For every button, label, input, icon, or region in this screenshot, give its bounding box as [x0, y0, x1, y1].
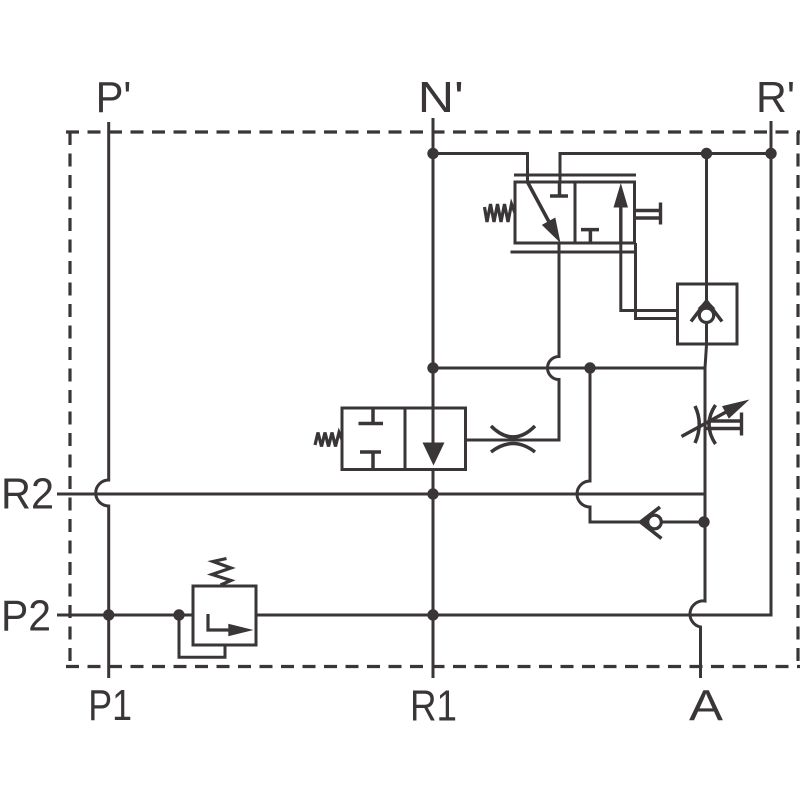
wire P' to P1 vertical with hop over R2 [96, 122, 109, 678]
junction dot N' pilot rail [427, 362, 438, 373]
adjustable throttle adjuster screw [706, 413, 742, 436]
enclosure dashed border [66, 132, 800, 667]
wire check valve CV2 to A-line [662, 521, 705, 524]
wire A-line: check box bottom through throttle, hop over P2, to port A [690, 323, 707, 679]
adjustable throttle arrow [682, 412, 728, 437]
valve V1 proportional line bottom [511, 251, 637, 254]
valve V2 body box [342, 408, 466, 470]
svg-text:N': N' [418, 73, 464, 122]
junction dot CV2 to A-line [698, 516, 709, 527]
valve V1 spring [485, 204, 516, 222]
svg-text:P2: P2 [1, 592, 51, 641]
junction dot relief valve input [173, 609, 184, 620]
check valve CV2 ball [648, 515, 662, 529]
wire valve V1 port to check box CV1 (left upper) [621, 243, 678, 311]
valve V1 plunger actuator [635, 203, 661, 225]
junction dot top rail R' [765, 148, 776, 159]
svg-text:R1: R1 [410, 682, 457, 731]
valve V2 down flow arrowhead [423, 443, 445, 466]
svg-text:P1: P1 [88, 681, 132, 730]
wire pilot rail y=368 [433, 367, 705, 370]
adjustable throttle arcs [695, 405, 716, 444]
valve V2 partition [404, 408, 407, 470]
valve V1 diagonal flow arrow [528, 182, 549, 221]
relief valve RV body box [193, 586, 256, 645]
check valve CV1 seat wedge [698, 300, 716, 309]
valve V1 body box [515, 182, 635, 243]
check valve CV2 seat wedge [640, 515, 648, 529]
wire R2 rail y=494 [57, 493, 705, 496]
fixed restrictor on V2 output [491, 426, 535, 452]
junction dot pilot rail x=590 [584, 362, 595, 373]
valve V1 proportional line top [514, 174, 636, 177]
svg-text:R2: R2 [1, 470, 54, 519]
valve V1 blocked port T (left box, from top) [550, 182, 568, 196]
junction dot N' top rail [427, 148, 438, 159]
valve V2 blocked T (left box bottom) [360, 452, 381, 470]
relief valve RV internal arrow [208, 614, 231, 630]
valve V1 blocked port T (right box, from bottom) [581, 230, 599, 243]
valve V1 partition [574, 182, 577, 243]
valve V2 blocked T (left box top) [359, 408, 384, 424]
junction dot top rail x=706 [701, 148, 712, 159]
wire N' to R1 vertical (lower part) [432, 470, 435, 679]
wire junction 590 drop with hop over R2, to check valve CV2 [577, 368, 641, 522]
valve V2 spring [315, 433, 342, 447]
wire valve V1 bottom port to restrictor, hop over y=368 [466, 243, 559, 440]
valve V1 up flow arrow (right box) [619, 206, 622, 243]
svg-text:A: A [689, 682, 724, 731]
check valve CV1 seat [691, 301, 722, 322]
svg-text:R': R' [756, 73, 795, 122]
wire top rail y=153.5 N' to valve and to R' [433, 154, 771, 183]
wire P2 rail to R' riser [57, 121, 771, 615]
junction dot N' R2 rail [427, 488, 438, 499]
check valve CV2 seat [641, 507, 662, 539]
svg-text:P': P' [96, 73, 132, 122]
junction dot P' P2 rail [103, 609, 114, 620]
wire valve V1 right edge to check box CV1 (left lower) [636, 243, 678, 319]
check valve CV1 ball [699, 308, 713, 322]
wire N' to R1 vertical (upper part, arrow shaft of valve V2 included) [432, 118, 435, 443]
check valve CV1 cartridge box [678, 284, 738, 344]
relief valve RV spring [212, 559, 231, 586]
relief valve RV pilot bypass [179, 615, 225, 657]
wire N' junction to check box CV1 vertical [705, 154, 708, 302]
junction dot N' P2 rail [427, 609, 438, 620]
